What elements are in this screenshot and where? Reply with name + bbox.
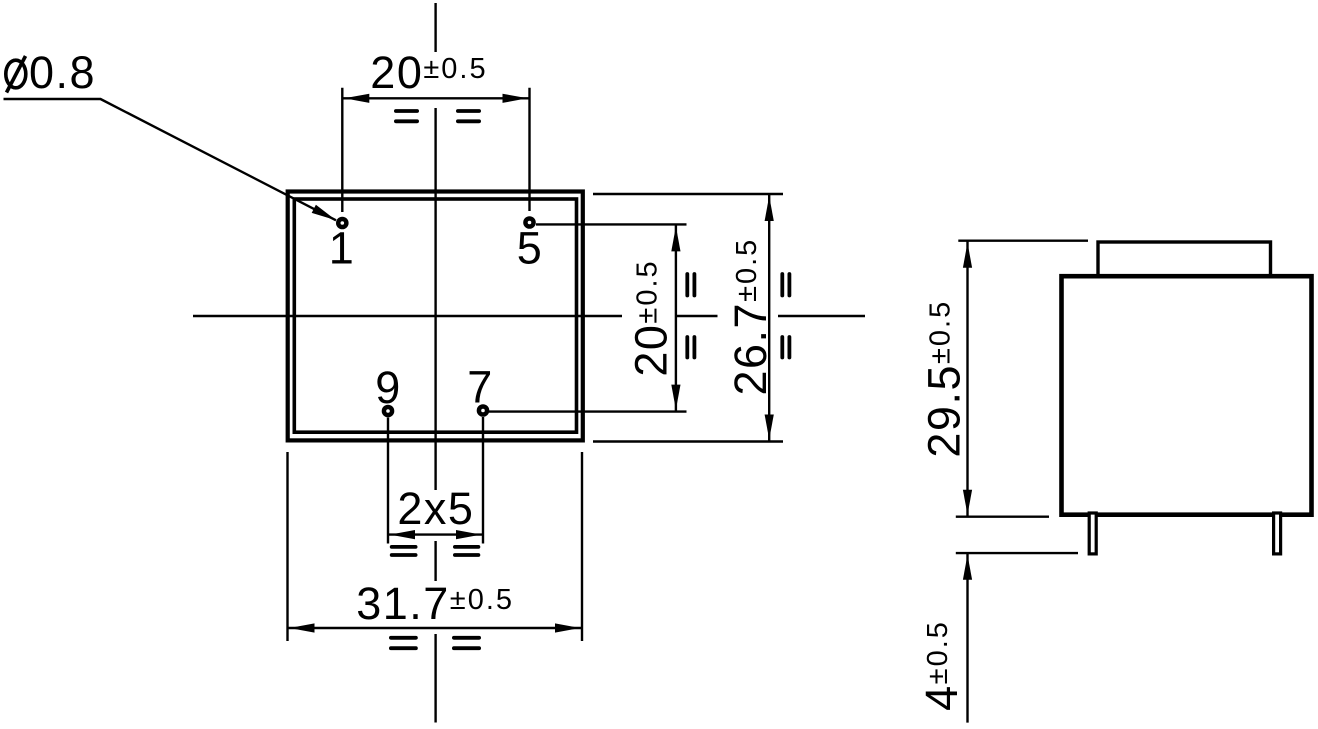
svg-text:5: 5 bbox=[517, 223, 544, 274]
svg-text:1: 1 bbox=[329, 223, 356, 274]
svg-text:7: 7 bbox=[467, 362, 494, 413]
svg-text:9: 9 bbox=[375, 362, 402, 413]
svg-text:2x5: 2x5 bbox=[397, 483, 474, 534]
svg-text:0.8: 0.8 bbox=[29, 47, 96, 98]
